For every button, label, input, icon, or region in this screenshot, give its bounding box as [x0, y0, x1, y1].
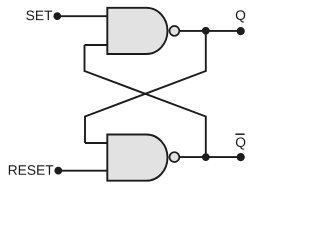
wire SET input	[57, 15, 108, 17]
NAND gate U2 (bottom) body	[107, 135, 167, 181]
wire feedback A: right vertical from Q node + diagonal down-left + left vertical	[85, 31, 206, 143]
label Q	[236, 10, 245, 22]
Qbar output terminal dot	[237, 153, 245, 161]
junction node on Q	[202, 27, 210, 35]
label Qbar	[236, 137, 245, 149]
Q output terminal dot	[237, 27, 245, 35]
label RESET	[9, 165, 54, 175]
label SET	[26, 11, 52, 21]
RESET input terminal dot	[54, 167, 62, 175]
wire Qbar output	[180, 156, 241, 158]
wire Q output	[180, 30, 241, 32]
SET input terminal dot	[53, 12, 61, 20]
wire RESET input	[58, 170, 108, 172]
junction node on Qbar	[202, 153, 210, 161]
wire feedback B: left vertical + diagonal down-right + right vertical to Qbar node	[85, 45, 206, 157]
wire feedback A: bottom-gate upper input stub	[85, 142, 108, 144]
NAND gate U2 inversion bubble	[170, 152, 180, 162]
wire feedback B: top-gate lower input stub	[85, 44, 109, 46]
overline of Qbar	[235, 133, 244, 135]
NAND gate U1 inversion bubble	[170, 26, 180, 36]
NAND gate U1 (top) body	[107, 8, 167, 54]
